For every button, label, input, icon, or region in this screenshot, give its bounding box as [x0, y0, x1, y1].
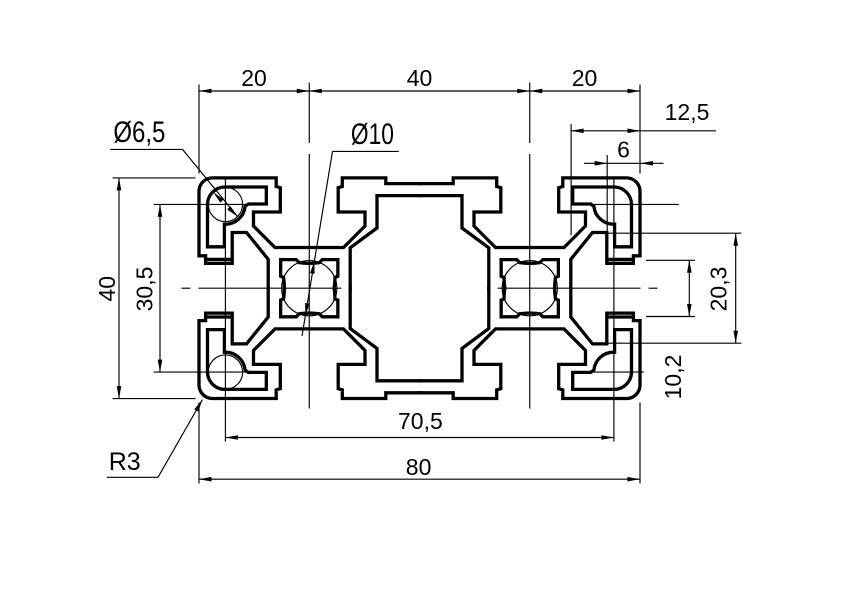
arrow top chain right: [628, 89, 641, 94]
extension line 20,3 top: [607, 232, 741, 234]
arrow 40 top: [117, 178, 122, 191]
dimension line 40 left side: [118, 178, 120, 399]
extension line 80 right: [639, 403, 641, 484]
node left slot axis main dash: [308, 154, 310, 409]
arrow 20,3 bottom: [733, 331, 738, 344]
wire circle core bore left: [282, 261, 337, 316]
profile quadrant top-left: [199, 178, 422, 290]
arrow 30,5 top: [158, 204, 163, 217]
wire leader R3 diagonal: [158, 400, 203, 478]
wire leader diameter 10 diagonal: [302, 151, 333, 336]
arrow diameter 6,5 lower: [227, 206, 239, 218]
arrow 10,2 bottom: [687, 304, 692, 317]
node left slot axis upper dash: [308, 83, 310, 144]
profile quadrant bottom-left (mirrored): [199, 286, 422, 398]
dimension line top chain 20/40/20: [199, 90, 640, 92]
arrow 6 left outside: [595, 161, 608, 166]
extension line 40 bottom: [113, 398, 196, 400]
wire leader R3 underline: [107, 476, 158, 478]
svg-text:20: 20: [241, 65, 267, 91]
svg-text:20: 20: [572, 65, 598, 91]
profile quadrant bottom-right (mirrored): [418, 286, 641, 398]
dimension line 20,3: [735, 233, 737, 343]
node upper-right hole cross line: [571, 203, 679, 205]
dimension line 70,5: [225, 437, 614, 439]
node right slot axis main dash: [529, 154, 531, 409]
dimension line 6: [584, 162, 664, 164]
svg-text:40: 40: [407, 65, 433, 91]
node horizontal centerline dash 2: [199, 287, 342, 289]
wire circle corner hole bottom-left: [208, 355, 242, 389]
extension line 20,3 bottom: [607, 342, 741, 344]
wire circle corner hole top-left: [208, 187, 242, 221]
arrow 70,5 left: [225, 435, 238, 440]
node horizontal centerline dash 1: [182, 287, 191, 289]
extension line 12,5: [570, 124, 572, 235]
dimension line 30,5: [159, 204, 161, 372]
svg-text:30,5: 30,5: [131, 267, 157, 312]
node right slot axis upper dash: [529, 83, 531, 144]
arrow 80 right: [628, 477, 641, 482]
node right corner hole axis: [613, 177, 615, 442]
svg-text:40: 40: [94, 276, 120, 302]
arrow diameter 10 lower: [303, 303, 310, 316]
svg-text:Ø10: Ø10: [351, 118, 394, 151]
svg-text:R3: R3: [109, 448, 141, 476]
extension line 6: [606, 155, 608, 233]
node horizontal centerline dash 3: [498, 287, 641, 289]
node upper-left hole cross line: [154, 203, 248, 205]
arrow pair at first slot axis: [297, 89, 310, 94]
arrow 6 right outside: [641, 161, 654, 166]
node left corner hole axis: [224, 177, 226, 442]
arrow 20,3 top: [733, 233, 738, 246]
wire leader diameter 6,5 underline: [110, 148, 182, 150]
arrow top chain left: [199, 89, 212, 94]
arrow 40 bottom: [117, 386, 122, 399]
svg-text:80: 80: [406, 454, 432, 480]
extension line 10,2 top: [646, 259, 695, 261]
extension line top left: [198, 85, 200, 174]
extension line 40 top: [113, 177, 196, 179]
arrow R3: [194, 398, 204, 411]
wire leader diameter 10 underline: [333, 150, 399, 152]
svg-text:6: 6: [617, 137, 630, 163]
arrow diameter 6,5 upper: [212, 191, 224, 203]
arrow 12,5 right: [628, 129, 641, 134]
extension line top right: [639, 85, 641, 174]
extension line 10,2 bottom: [646, 316, 695, 318]
dimension line 12,5: [571, 130, 716, 132]
arrow pair at second slot axis: [517, 89, 530, 94]
node horizontal centerline dash 4: [649, 287, 658, 289]
svg-text:12,5: 12,5: [665, 99, 710, 125]
svg-text:20,3: 20,3: [706, 267, 732, 312]
profile quadrant top-right (mirrored): [418, 178, 641, 290]
svg-text:Ø6,5: Ø6,5: [113, 116, 165, 149]
arrow diameter 10 upper: [310, 261, 317, 274]
arrow 80 left: [199, 477, 212, 482]
svg-text:10,2: 10,2: [660, 355, 686, 400]
dimension line 80: [199, 478, 640, 480]
arrow 12,5 left: [571, 129, 584, 134]
wire leader diameter 6,5 diagonal: [183, 149, 238, 216]
extension line 80 left: [198, 403, 200, 484]
arrow 30,5 bottom: [158, 360, 163, 373]
svg-text:70,5: 70,5: [398, 408, 443, 434]
arrow 70,5 right: [601, 435, 614, 440]
node lower-right hole cross line: [574, 371, 644, 373]
node lower-left hole cross line: [154, 371, 248, 373]
wire circle core bore right: [502, 261, 557, 316]
arrow 10,2 top: [687, 260, 692, 273]
dimension line 10,2: [688, 260, 690, 316]
